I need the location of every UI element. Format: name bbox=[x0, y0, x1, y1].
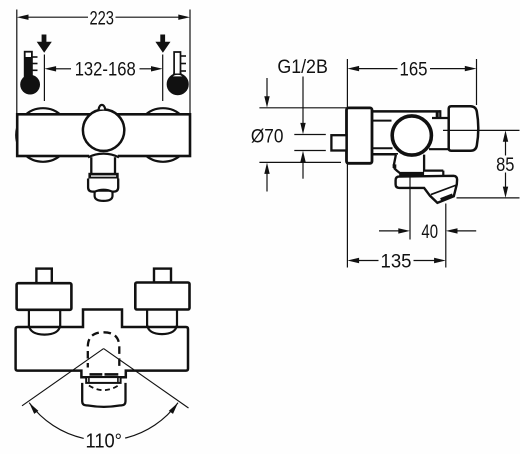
knob nub bbox=[99, 105, 106, 110]
dim 223 arrowhead right bbox=[178, 15, 190, 20]
spout band bbox=[86, 377, 120, 383]
leader line from spout (40/135) bbox=[409, 177, 411, 240]
dim 40 left arrow bbox=[379, 230, 400, 232]
110° arc right segment bbox=[125, 403, 178, 438]
dim 165 extension right bbox=[476, 59, 478, 105]
leader line from outlet (40 right / 135 right) bbox=[445, 204, 447, 268]
G1/2B leader down arrow bbox=[302, 77, 304, 127]
cold thermometer icon bbox=[167, 52, 187, 94]
svg-text:85: 85 bbox=[496, 155, 514, 176]
spout bracket bbox=[394, 155, 424, 173]
dim 223 extension line right bbox=[189, 10, 191, 115]
thick dashes at spout base bbox=[90, 373, 103, 376]
right union neck bbox=[146, 310, 148, 327]
body outline with plateau and notch bbox=[16, 310, 188, 378]
dim 132-168 extension line left bbox=[43, 55, 45, 102]
connector to cap bbox=[432, 118, 449, 149]
dim 223 line bbox=[28, 16, 89, 18]
nipple extension lines bbox=[294, 134, 326, 136]
dim 40 right arrow bbox=[457, 230, 477, 232]
aerator hatch bbox=[441, 195, 453, 200]
hot thermometer icon bbox=[20, 52, 40, 95]
aerator tip bbox=[95, 192, 113, 201]
side body bottom edge (left of bracket) bbox=[372, 153, 398, 156]
hot inlet arrow (left, solid down arrow) bbox=[37, 35, 52, 53]
side body inner line upper bbox=[372, 120, 392, 122]
right union flange bbox=[135, 283, 189, 310]
Ø70 down arrow bbox=[266, 78, 268, 98]
spout lower box bbox=[82, 383, 125, 407]
svg-text:Ø70: Ø70 bbox=[251, 126, 284, 147]
wall nipple G1/2 bbox=[331, 135, 346, 150]
dim 223 arrowhead left bbox=[17, 15, 29, 20]
dim 223 extension line left bbox=[16, 10, 18, 115]
mixer body (front) bbox=[17, 114, 190, 156]
svg-text:40: 40 bbox=[421, 222, 438, 243]
dim 132-168 line + arrows bbox=[55, 68, 71, 70]
left wall flange circle bbox=[16, 108, 70, 162]
side body fill bbox=[372, 111, 440, 154]
dim 165 line bbox=[358, 68, 398, 70]
left union square bbox=[36, 269, 51, 284]
spout (side) bbox=[396, 176, 458, 203]
svg-text:G1/2B: G1/2B bbox=[277, 57, 328, 78]
arc arrowhead right bbox=[169, 403, 178, 414]
left union neck bbox=[28, 310, 30, 328]
side body inner line lower bbox=[372, 147, 393, 149]
110° arc left segment bbox=[29, 403, 83, 439]
right wall flange circle bbox=[136, 108, 190, 162]
center axis line bbox=[443, 129, 520, 131]
end cap bbox=[449, 106, 479, 151]
spout neck with dome bbox=[89, 154, 118, 157]
bracket notch bbox=[393, 164, 397, 168]
spout nut band bbox=[90, 174, 118, 178]
svg-text:132-168: 132-168 bbox=[75, 60, 136, 81]
dim 85 line bbox=[505, 141, 507, 156]
side body top edge bbox=[372, 110, 440, 113]
Ø70 extension lines bbox=[259, 107, 346, 109]
knob circle (front) bbox=[83, 110, 124, 151]
right union square bbox=[154, 269, 171, 283]
svg-text:223: 223 bbox=[89, 8, 114, 29]
dim 135 line bbox=[358, 260, 379, 262]
Ø70 up arrow bbox=[264, 163, 269, 174]
wall flange (side) bbox=[347, 108, 373, 163]
dashed spout arch (hidden position) bbox=[88, 332, 120, 367]
G1/2B leader up arrow bbox=[300, 151, 305, 162]
joint band (black) bbox=[399, 173, 424, 178]
left union flange bbox=[17, 283, 72, 310]
aerator housing bbox=[88, 179, 118, 192]
side body right step edge bbox=[439, 110, 441, 118]
collar separation line bbox=[431, 185, 457, 195]
button tick on body bbox=[436, 111, 439, 118]
swivel angle line right bbox=[104, 349, 189, 408]
dim 85 bottom extension bbox=[457, 197, 520, 199]
cold inlet arrow (right, solid down arrow) bbox=[155, 35, 170, 53]
dashed outlet arc (hidden) bbox=[89, 386, 118, 391]
spout shoulder ledge bbox=[424, 171, 443, 177]
arc arrowhead left bbox=[29, 403, 38, 414]
svg-text:165: 165 bbox=[400, 60, 428, 81]
shared extension line (165/135 left) at wall bbox=[346, 59, 348, 268]
svg-text:110°: 110° bbox=[86, 431, 123, 453]
svg-text:135: 135 bbox=[381, 252, 412, 273]
knob ring (side) bbox=[392, 116, 431, 155]
dim 132-168 extension line right bbox=[162, 55, 164, 102]
swivel angle line left bbox=[22, 349, 104, 406]
